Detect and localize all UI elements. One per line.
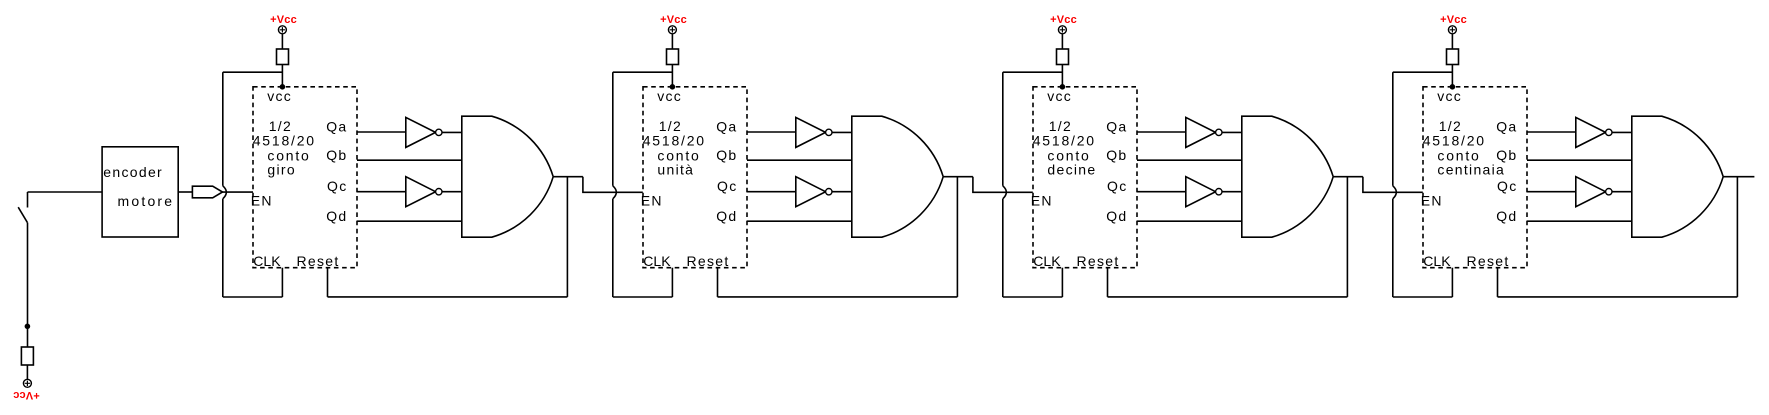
svg-text:giro: giro bbox=[267, 162, 296, 178]
svg-text:Reset: Reset bbox=[1077, 253, 1120, 269]
svg-text:CLK: CLK bbox=[1423, 253, 1451, 269]
wire hop over EN net (block 2) bbox=[613, 186, 617, 199]
inverter U4B bbox=[1576, 177, 1612, 207]
wire CLK pin U3 bbox=[1061, 268, 1063, 297]
wire A4 feedback to Reset U4 bbox=[1498, 296, 1738, 298]
wire A4 output feedback vertical bbox=[1736, 177, 1738, 297]
wire +Vcc to resistor R2 bbox=[671, 34, 673, 49]
svg-text:+Vcc: +Vcc bbox=[1050, 14, 1077, 26]
svg-text:Reset: Reset bbox=[687, 253, 730, 269]
wire Qd to gate A2 bbox=[747, 220, 852, 222]
wire inverter U2A to gate A2 bbox=[832, 131, 852, 133]
wire CLK loop bottom U2 bbox=[613, 296, 673, 298]
wire Reset pin U4 bbox=[1497, 268, 1499, 297]
wire Reset pin U2 bbox=[717, 268, 719, 297]
junction dot vcc node U1 bbox=[280, 84, 286, 90]
wire CLK loop vertical upper U4 bbox=[1392, 72, 1394, 186]
svg-text:centinaia: centinaia bbox=[1437, 162, 1505, 178]
encoder block ENC1 (encoder motore) bbox=[102, 147, 178, 237]
svg-text:Qd: Qd bbox=[1106, 208, 1127, 224]
junction dot vcc node U4 bbox=[1450, 84, 1456, 90]
wire R3 to vcc pin of U3 bbox=[1061, 65, 1063, 87]
svg-text:Qc: Qc bbox=[717, 178, 738, 194]
wire hop over EN net (block 1) bbox=[223, 186, 227, 199]
svg-text:Qb: Qb bbox=[326, 147, 347, 163]
svg-text:Qa: Qa bbox=[716, 118, 737, 134]
wire R4 to vcc pin of U4 bbox=[1451, 65, 1453, 87]
inverter U2A bbox=[796, 117, 832, 147]
power symbol +Vcc P1 bbox=[278, 26, 286, 34]
power symbol +Vcc P3 bbox=[1058, 26, 1066, 34]
svg-text:+Vcc: +Vcc bbox=[660, 14, 687, 26]
svg-text:Qd: Qd bbox=[326, 208, 347, 224]
resistor R3 pull-up bbox=[1057, 49, 1069, 65]
wire CLK loop vertical upper U2 bbox=[612, 72, 614, 186]
wire inverter U3A to gate A3 bbox=[1222, 131, 1242, 133]
svg-text:Reset: Reset bbox=[1467, 253, 1510, 269]
svg-text:4518/20: 4518/20 bbox=[1033, 132, 1096, 148]
svg-text:4518/20: 4518/20 bbox=[253, 132, 316, 148]
wire gate A4 output (open end) bbox=[1723, 176, 1754, 178]
wire inverter U4A to gate A4 bbox=[1612, 131, 1632, 133]
wire CLK loop vertical upper U1 bbox=[222, 72, 224, 186]
wire R5 to +Vcc symbol bbox=[26, 365, 28, 379]
wire +Vcc to resistor R3 bbox=[1061, 34, 1063, 49]
wire CLK pin U2 bbox=[671, 268, 673, 297]
inverter U1B bbox=[406, 177, 442, 207]
svg-text:4518/20: 4518/20 bbox=[643, 132, 706, 148]
inverter U1A bbox=[406, 117, 442, 147]
svg-text:Qb: Qb bbox=[1106, 147, 1127, 163]
wire CLK loop vertical lower U2 bbox=[612, 199, 614, 297]
svg-text:vcc: vcc bbox=[1047, 88, 1072, 104]
wire vcc branch to CLK loop U3 bbox=[1003, 71, 1063, 73]
svg-text:Qa: Qa bbox=[1106, 118, 1127, 134]
wire Qc to inverter U4B bbox=[1527, 191, 1576, 193]
wire Qc to inverter U3B bbox=[1137, 191, 1186, 193]
wire +Vcc to resistor R1 bbox=[281, 34, 283, 49]
wire A2 output feedback vertical bbox=[956, 177, 958, 297]
wire R1 to vcc pin of U1 bbox=[281, 65, 283, 87]
svg-text:EN: EN bbox=[641, 192, 663, 208]
power symbol +Vcc P2 bbox=[668, 26, 676, 34]
wire vcc branch to CLK loop U1 bbox=[223, 71, 283, 73]
svg-text:Qc: Qc bbox=[1107, 178, 1128, 194]
wire A2 output to EN of U3 bbox=[973, 177, 1033, 193]
inverter U3A bbox=[1186, 117, 1222, 147]
wire CLK loop vertical upper U3 bbox=[1002, 72, 1004, 186]
wire A3 output feedback vertical bbox=[1346, 177, 1348, 297]
wire A3 feedback to Reset U3 bbox=[1108, 296, 1348, 298]
junction dot vcc node U2 bbox=[670, 84, 676, 90]
wire switch to resistor R5 bbox=[27, 223, 29, 347]
svg-text:Reset: Reset bbox=[297, 253, 340, 269]
junction dot vcc node U3 bbox=[1060, 84, 1066, 90]
wire Reset pin U1 bbox=[327, 268, 329, 297]
resistor R5 bbox=[21, 347, 33, 365]
svg-text:+Vcc: +Vcc bbox=[1440, 14, 1467, 26]
svg-text:vcc: vcc bbox=[267, 88, 292, 104]
wire Qa to inverter U3A bbox=[1137, 131, 1186, 133]
svg-text:motore: motore bbox=[118, 193, 175, 209]
wire CLK loop bottom U3 bbox=[1003, 296, 1063, 298]
power symbol +Vcc P5 (rotated) bbox=[23, 379, 31, 387]
wire inverter U1B to gate A1 bbox=[442, 191, 462, 193]
svg-text:Qc: Qc bbox=[327, 178, 348, 194]
counter U4 1/2 4518/20 conto centinaia bbox=[1423, 87, 1527, 268]
wire Qc to inverter U1B bbox=[357, 191, 406, 193]
wire inverter U1A to gate A1 bbox=[442, 131, 462, 133]
wire CLK loop bottom U4 bbox=[1393, 296, 1453, 298]
wire Qd to gate A4 bbox=[1527, 220, 1632, 222]
svg-text:+Vcc: +Vcc bbox=[13, 389, 40, 401]
wire vcc branch to CLK loop U2 bbox=[613, 71, 673, 73]
wire inverter U3B to gate A3 bbox=[1222, 191, 1242, 193]
svg-text:Qc: Qc bbox=[1497, 178, 1518, 194]
svg-text:Qd: Qd bbox=[716, 208, 737, 224]
wire CLK pin U1 bbox=[281, 268, 283, 297]
resistor R1 pull-up bbox=[277, 49, 289, 65]
AND gate A4 bbox=[1632, 116, 1723, 237]
svg-text:unità: unità bbox=[657, 162, 694, 178]
wire R2 to vcc pin of U2 bbox=[671, 65, 673, 87]
wire Qb to gate A4 bbox=[1527, 159, 1632, 161]
svg-text:decine: decine bbox=[1047, 162, 1096, 178]
counter U3 1/2 4518/20 conto decine bbox=[1033, 87, 1137, 268]
inverter U3B bbox=[1186, 177, 1222, 207]
AND gate A1 bbox=[462, 116, 553, 237]
wire hop over EN net (block 4) bbox=[1393, 186, 1397, 199]
inverter U4A bbox=[1576, 117, 1612, 147]
inverter U2B bbox=[796, 177, 832, 207]
switch SW1 blade (open) bbox=[18, 207, 27, 223]
wire to switch top contact bbox=[27, 192, 29, 208]
svg-text:4518/20: 4518/20 bbox=[1423, 132, 1486, 148]
svg-text:Qa: Qa bbox=[326, 118, 347, 134]
wire +Vcc to resistor R4 bbox=[1451, 34, 1453, 49]
wire A3 output to EN of U4 bbox=[1363, 177, 1423, 193]
power symbol +Vcc P4 bbox=[1448, 26, 1456, 34]
AND gate A2 bbox=[852, 116, 943, 237]
junction dot node A bbox=[25, 324, 31, 330]
signal tag arrow T1 bbox=[192, 186, 222, 198]
wire A1 feedback to Reset U1 bbox=[328, 296, 568, 298]
wire CLK loop vertical lower U1 bbox=[222, 199, 224, 297]
svg-text:CLK: CLK bbox=[643, 253, 671, 269]
wire CLK loop bottom U1 bbox=[223, 296, 283, 298]
svg-text:EN: EN bbox=[1421, 192, 1443, 208]
wire gate A3 output bbox=[1333, 176, 1363, 178]
AND gate A3 bbox=[1242, 116, 1333, 237]
wire Qa to inverter U1A bbox=[357, 131, 406, 133]
wire CLK pin U4 bbox=[1451, 268, 1453, 297]
resistor R2 pull-up bbox=[667, 49, 679, 65]
svg-text:CLK: CLK bbox=[1033, 253, 1061, 269]
svg-text:+Vcc: +Vcc bbox=[270, 14, 297, 26]
wire Qa to inverter U4A bbox=[1527, 131, 1576, 133]
wire hop over EN net (block 3) bbox=[1003, 186, 1007, 199]
counter U1 1/2 4518/20 conto giro bbox=[253, 87, 357, 268]
wire Qb to gate A2 bbox=[747, 159, 852, 161]
svg-text:CLK: CLK bbox=[253, 253, 281, 269]
wire vcc branch to CLK loop U4 bbox=[1393, 71, 1453, 73]
wire A1 output feedback vertical bbox=[566, 177, 568, 297]
svg-text:Qb: Qb bbox=[716, 147, 737, 163]
wire encoder input net bbox=[28, 191, 103, 193]
wire Qb to gate A3 bbox=[1137, 159, 1242, 161]
svg-text:EN: EN bbox=[251, 192, 273, 208]
wire gate A1 output bbox=[553, 176, 583, 178]
resistor R4 pull-up bbox=[1447, 49, 1459, 65]
wire Qd to gate A3 bbox=[1137, 220, 1242, 222]
svg-text:EN: EN bbox=[1031, 192, 1053, 208]
svg-text:encoder: encoder bbox=[103, 164, 163, 180]
wire Qb to gate A1 bbox=[357, 159, 462, 161]
svg-text:Qb: Qb bbox=[1496, 147, 1517, 163]
wire CLK loop vertical lower U4 bbox=[1392, 199, 1394, 297]
counter U2 1/2 4518/20 conto unità bbox=[643, 87, 747, 268]
wire inverter U4B to gate A4 bbox=[1612, 191, 1632, 193]
wire gate A2 output bbox=[943, 176, 973, 178]
wire Qc to inverter U2B bbox=[747, 191, 796, 193]
svg-text:Qd: Qd bbox=[1496, 208, 1517, 224]
wire A2 feedback to Reset U2 bbox=[718, 296, 958, 298]
wire encoder output bbox=[178, 191, 192, 193]
wire Reset pin U3 bbox=[1107, 268, 1109, 297]
wire tag T1 to EN pin U1 bbox=[223, 191, 254, 193]
wire A1 output to EN of U2 bbox=[583, 177, 643, 193]
wire inverter U2B to gate A2 bbox=[832, 191, 852, 193]
svg-text:Qa: Qa bbox=[1496, 118, 1517, 134]
svg-text:vcc: vcc bbox=[1437, 88, 1462, 104]
wire CLK loop vertical lower U3 bbox=[1002, 199, 1004, 297]
wire Qd to gate A1 bbox=[357, 220, 462, 222]
wire Qa to inverter U2A bbox=[747, 131, 796, 133]
svg-text:vcc: vcc bbox=[657, 88, 682, 104]
